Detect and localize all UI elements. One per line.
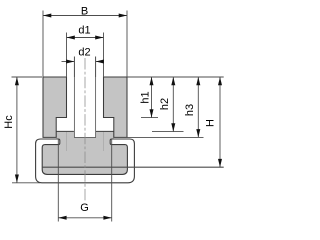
svg-text:H: H: [205, 119, 217, 127]
svg-text:G: G: [80, 202, 89, 214]
svg-text:d1: d1: [78, 25, 90, 37]
svg-text:h2: h2: [159, 98, 171, 110]
svg-text:h1: h1: [140, 91, 152, 103]
svg-text:h3: h3: [184, 104, 196, 116]
svg-text:Hc: Hc: [3, 115, 15, 129]
svg-text:d2: d2: [78, 47, 90, 59]
svg-text:B: B: [81, 6, 88, 18]
